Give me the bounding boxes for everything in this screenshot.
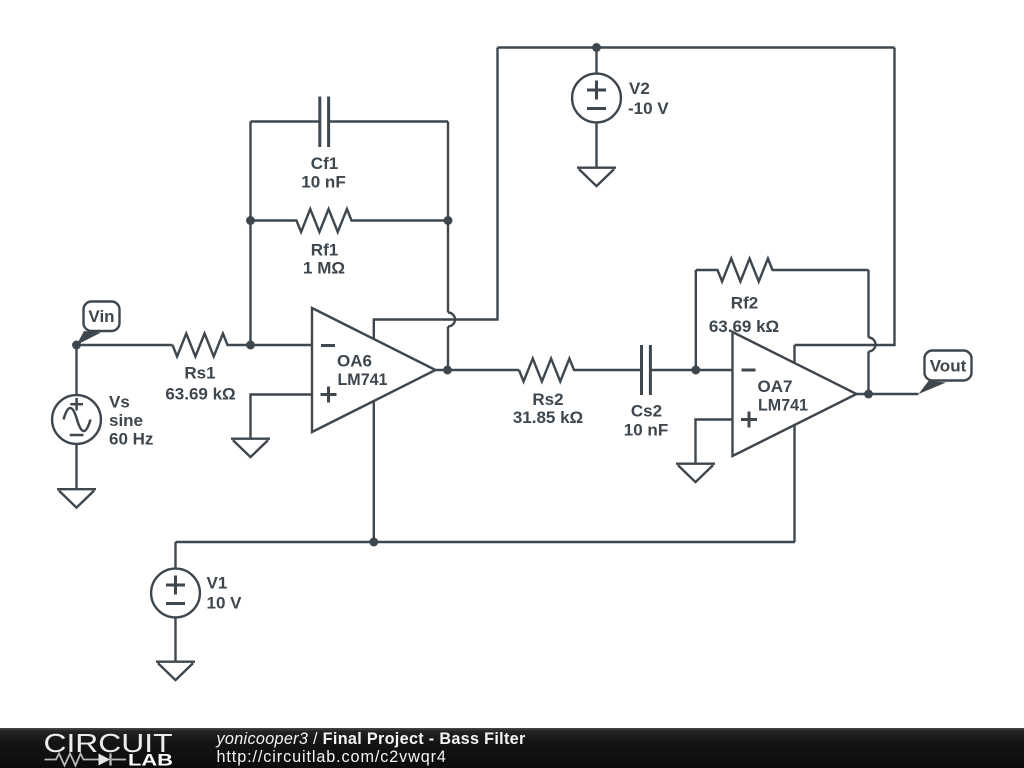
node OA6 inverting input junction (246, 341, 255, 350)
capacitor Cf1 (320, 97, 329, 148)
wire top rail (498, 46, 895, 48)
footer title line (217, 730, 526, 749)
op-amp OA7 (733, 332, 857, 456)
OA6 minus pin mark (321, 344, 335, 347)
wire OA6 + input (251, 395, 313, 438)
svg-text:63.69 kΩ: 63.69 kΩ (165, 385, 235, 404)
wire Vs top lead (75, 345, 77, 396)
wire OA7 + input (696, 420, 733, 463)
svg-text:Vout: Vout (930, 357, 967, 376)
ground below OA6 + input (231, 438, 270, 440)
wire right rail down to OA7 V+ (795, 48, 895, 346)
footer url line (217, 748, 447, 767)
node V2 top junction (592, 43, 601, 52)
wire hop over OA7 supply wire (869, 338, 876, 352)
svg-text:Cf1: Cf1 (311, 154, 338, 173)
svg-text:LM741: LM741 (758, 396, 808, 415)
svg-text:V1: V1 (207, 574, 228, 593)
svg-text:Vs: Vs (109, 393, 130, 412)
svg-text:LAB: LAB (128, 750, 173, 768)
svg-text:V2: V2 (629, 79, 650, 98)
node bottom rail junction (369, 538, 378, 547)
svg-text:Rs2: Rs2 (532, 390, 563, 409)
wire hop over OA6 supply wire (448, 313, 455, 327)
node Vin junction (72, 341, 81, 350)
OA7 plus pin mark (741, 412, 757, 428)
OA7 minus pin mark (742, 369, 756, 372)
node OA7 output junction (864, 390, 873, 399)
wire OA7 output (857, 393, 919, 395)
wire Rf2 right vertical lower (867, 352, 869, 395)
svg-text:sine: sine (109, 411, 143, 430)
svg-text:Rf1: Rf1 (311, 241, 338, 260)
wire feedback left vertical (249, 122, 251, 346)
svg-text:Cs2: Cs2 (631, 402, 662, 421)
ground below V2 (577, 166, 616, 168)
wire OA7 V+ riser (793, 345, 795, 364)
resistor Rs2 (519, 359, 641, 382)
resistor Rs1 (173, 334, 313, 357)
ground below OA7 + input (676, 463, 715, 465)
svg-text:Rs1: Rs1 (184, 364, 215, 383)
svg-text:OA7: OA7 (758, 377, 793, 396)
wire Cf1 top branch left (251, 120, 320, 122)
svg-text:31.85 kΩ: 31.85 kΩ (513, 408, 583, 427)
node Vin flag (77, 302, 120, 346)
ground below V1 (156, 661, 195, 663)
svg-text:10 V: 10 V (207, 594, 243, 613)
wire OA6 V- bottom pin (373, 401, 375, 543)
svg-text:LM741: LM741 (338, 370, 388, 389)
wire Vs bottom lead (75, 444, 77, 488)
node OA7 inverting input junction (691, 366, 700, 375)
ground below Vs (57, 488, 96, 490)
node OA6 output junction (443, 366, 452, 375)
svg-text:1 MΩ: 1 MΩ (303, 259, 345, 278)
wire top rail left drop to OA6 V+ (374, 48, 498, 340)
label V2 (628, 79, 669, 118)
wire inter-stage row left (436, 369, 520, 371)
wire V1 top lead (174, 542, 176, 569)
wire input row (77, 344, 173, 346)
wire Rf2 right vertical upper (867, 270, 869, 338)
label Vs (109, 393, 153, 449)
node Rf1 right junction (444, 216, 453, 225)
svg-text:60 Hz: 60 Hz (109, 430, 153, 449)
wire V2 top lead (595, 48, 597, 74)
resistor Rf1 (251, 209, 449, 232)
svg-text:OA6: OA6 (337, 352, 372, 371)
wire feedback right vertical upper (447, 122, 449, 313)
footer bar (0, 728, 1024, 768)
capacitor Cs2 (642, 345, 651, 395)
wire feedback right vertical lower (447, 327, 449, 371)
svg-text:Vin: Vin (88, 307, 114, 326)
svg-text:Rf2: Rf2 (731, 294, 758, 313)
node Vout flag (919, 351, 972, 395)
svg-text:-10 V: -10 V (628, 99, 669, 118)
voltage source V1 (151, 569, 200, 618)
svg-text:10 nF: 10 nF (301, 173, 345, 192)
voltage source V2 (572, 74, 621, 123)
OA6 plus pin mark (321, 387, 337, 403)
wire inter-stage row right (650, 369, 732, 371)
svg-text:10 nF: 10 nF (624, 421, 668, 440)
label V1 (207, 574, 243, 613)
op-amp OA6 (312, 308, 436, 432)
node Rf1 left junction (246, 216, 255, 225)
svg-text:63.69 kΩ: 63.69 kΩ (709, 317, 779, 336)
CircuitLab logo resistor-diode squiggle (45, 754, 127, 766)
wire V1 bottom lead (174, 617, 176, 660)
wire OA7 V- bottom pin (793, 425, 795, 542)
resistor Rf2 (696, 259, 869, 282)
wire V2 bottom lead (595, 122, 597, 166)
wire Cf1 top branch right (329, 120, 448, 122)
wire bottom rail (176, 541, 796, 543)
wire Rf2 left vertical (695, 270, 697, 370)
voltage source Vs (52, 395, 101, 444)
